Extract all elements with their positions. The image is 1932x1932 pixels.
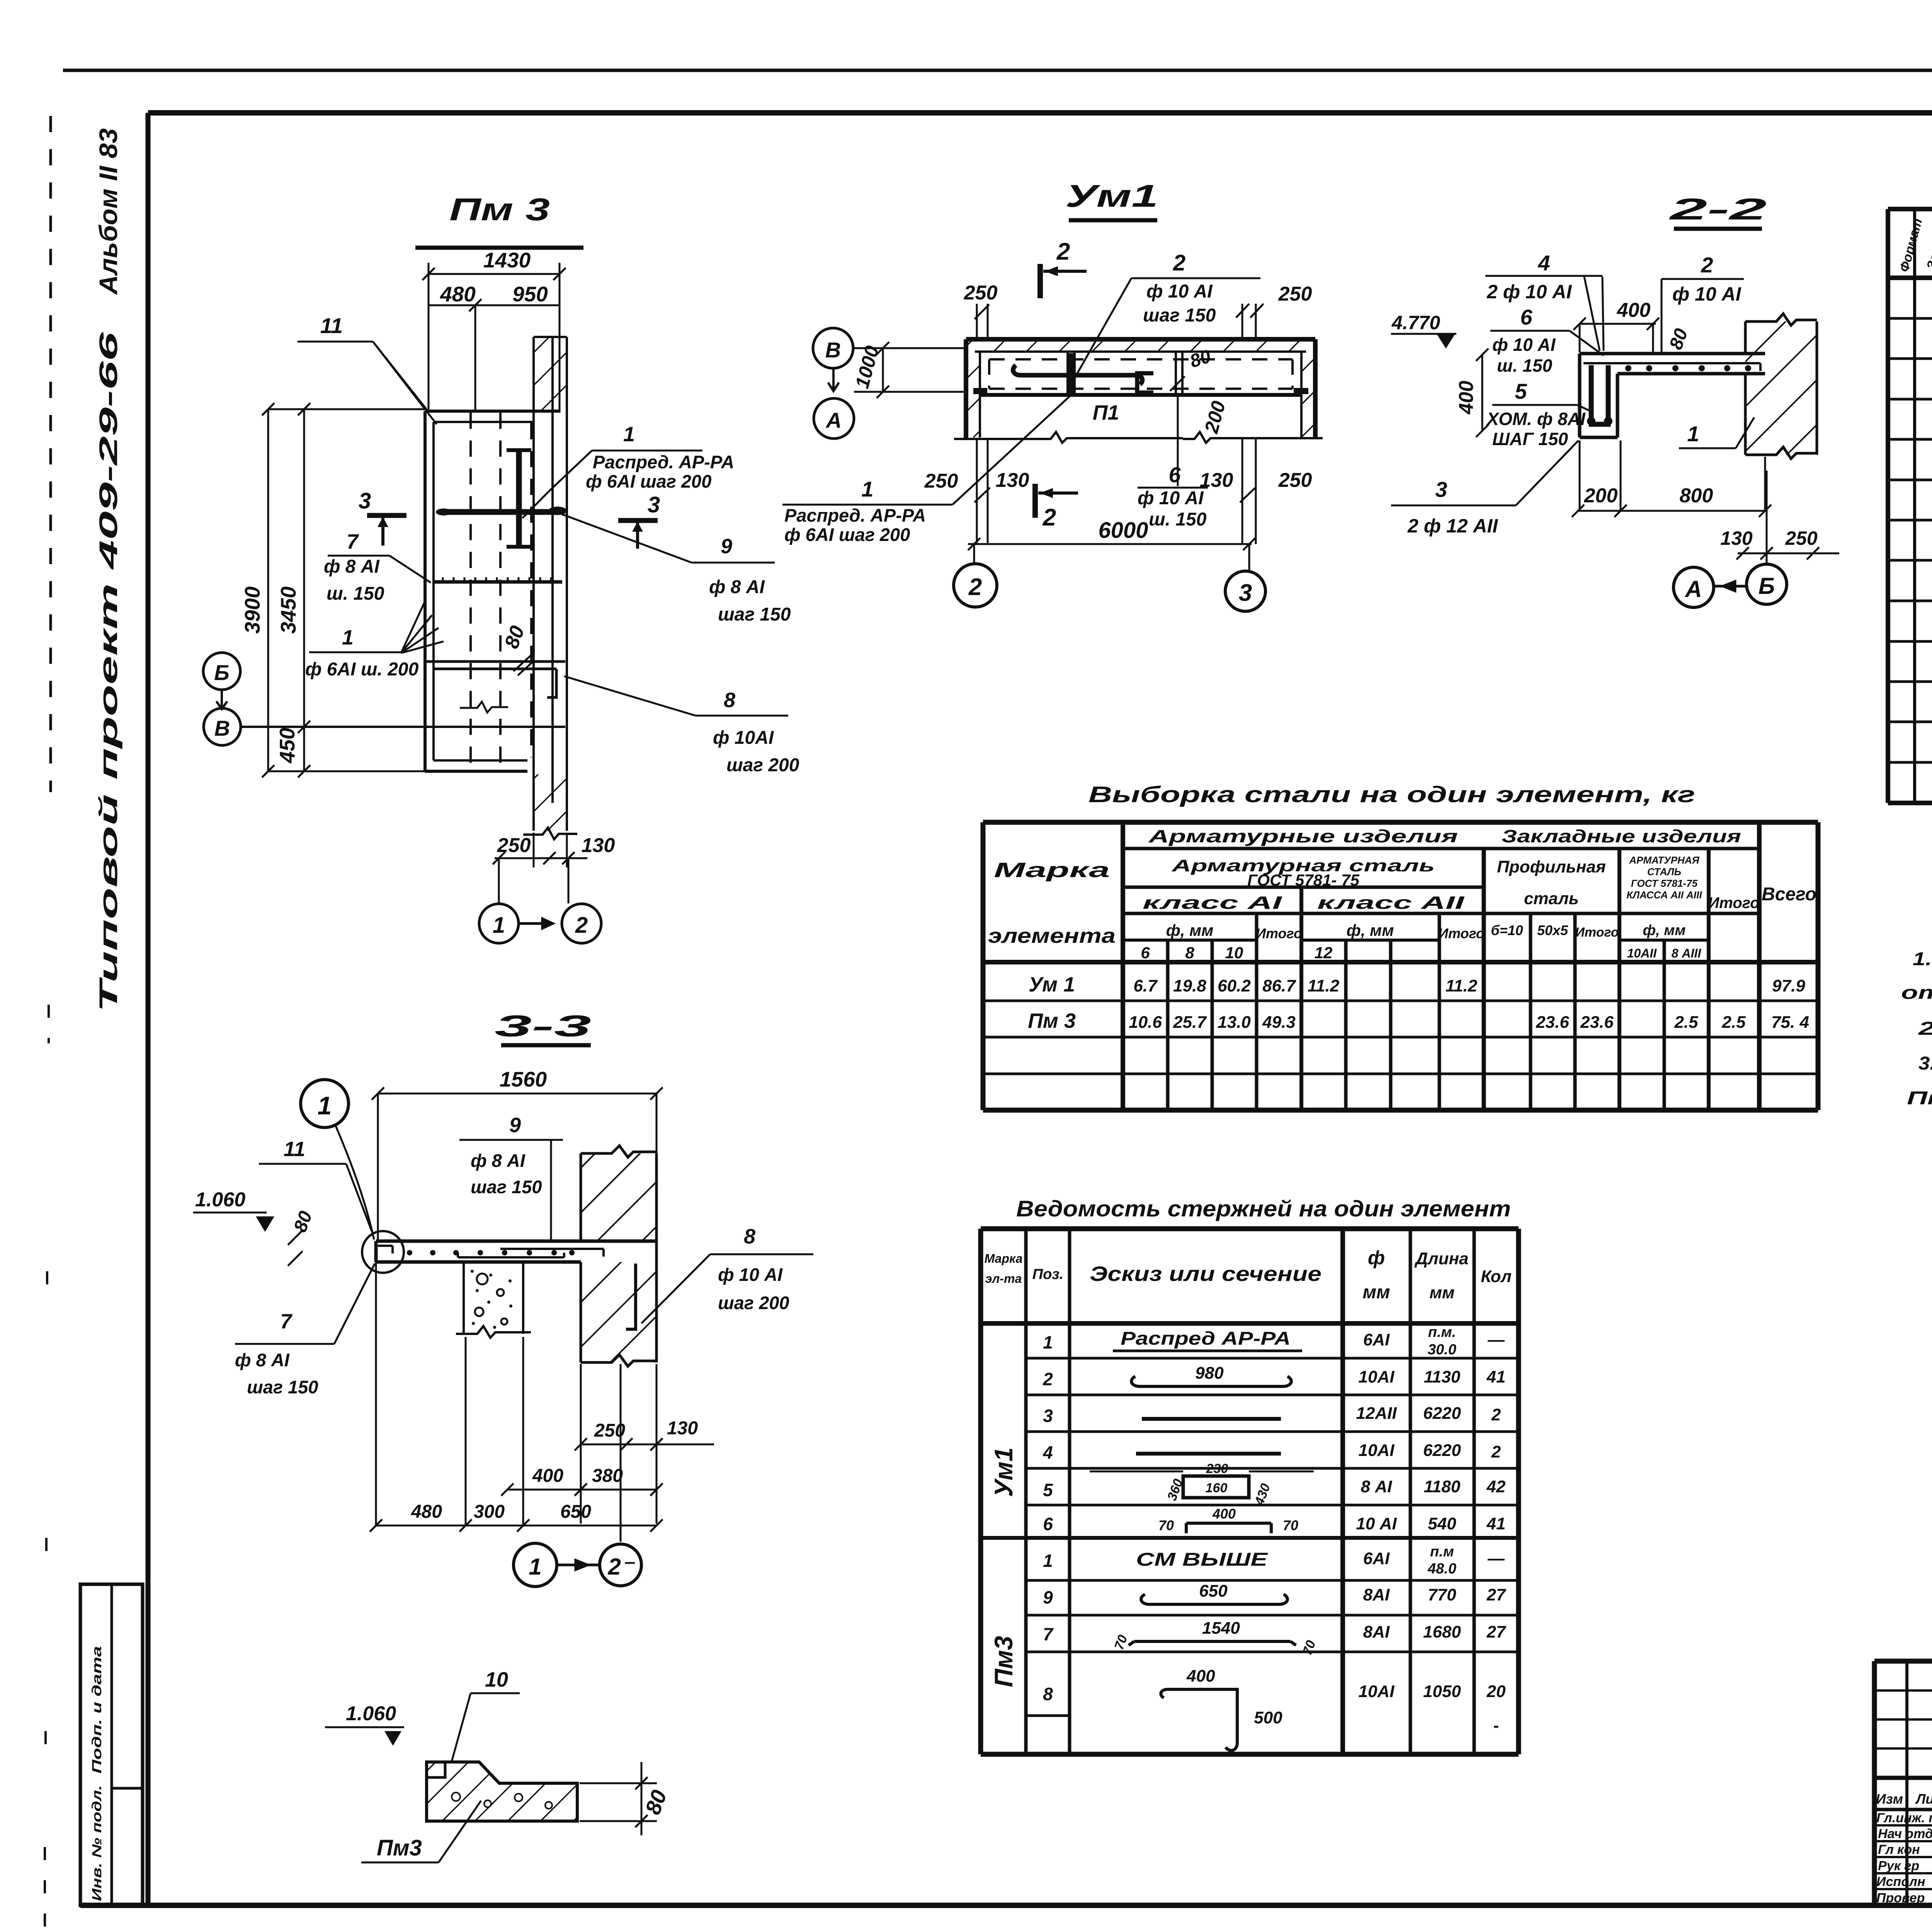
svg-text:шаг 200: шаг 200 [718, 1293, 789, 1313]
svg-text:27: 27 [1486, 1622, 1507, 1641]
plate outline Pm3 [425, 337, 560, 803]
svg-text:650: 650 [1199, 1582, 1228, 1600]
svg-text:Рук гр: Рук гр [1878, 1859, 1919, 1873]
svg-text:Формат: Формат [1897, 217, 1925, 274]
section flag 2 bottom [1035, 484, 1078, 518]
svg-text:КЛАССА АII АIII: КЛАССА АII АIII [1626, 889, 1702, 901]
svg-text:1000: 1000 [851, 344, 883, 391]
vedomost grid [981, 1229, 1519, 1754]
svg-text:2: 2 [1056, 238, 1070, 265]
svg-text:10.6: 10.6 [1129, 1013, 1162, 1032]
svg-text:1: 1 [529, 1554, 541, 1580]
svg-text:1: 1 [318, 1091, 332, 1120]
svg-text:2⁻: 2⁻ [607, 1554, 635, 1580]
svg-text:27: 27 [1486, 1585, 1507, 1604]
svg-text:ф 8 АI: ф 8 АI [709, 577, 765, 597]
grid line from B2 [1766, 471, 1768, 563]
svg-text:2-2: 2-2 [1668, 192, 1767, 226]
dim 1000 vertical [877, 342, 889, 398]
svg-text:10АI: 10АI [1359, 1441, 1395, 1460]
svg-text:8: 8 [1185, 944, 1194, 962]
svg-text:п.м: п.м [1430, 1544, 1454, 1560]
svg-text:400: 400 [1617, 299, 1651, 321]
svg-text:70: 70 [1158, 1517, 1174, 1533]
grid circle 2 [562, 904, 601, 943]
grid circle B2 [1747, 564, 1787, 604]
svg-text:ШАГ 150: ШАГ 150 [1492, 429, 1568, 449]
svg-text:7: 7 [347, 530, 359, 553]
left hatched band [968, 341, 980, 437]
svg-text:4.770: 4.770 [1391, 312, 1440, 333]
svg-text:Типовой проект 409-29-66: Типовой проект 409-29-66 [94, 331, 122, 1012]
svg-text:мм: мм [1362, 1282, 1390, 1303]
svg-text:1180: 1180 [1424, 1477, 1461, 1496]
connector B to V [216, 690, 227, 709]
vertical dim 3450 [268, 403, 425, 777]
svg-text:480: 480 [440, 282, 476, 306]
svg-text:500: 500 [1254, 1708, 1282, 1727]
svg-text:В: В [825, 338, 841, 362]
svg-text:80: 80 [1666, 326, 1692, 352]
svg-text:класс АI: класс АI [1143, 893, 1282, 913]
svg-text:мм: мм [1429, 1283, 1454, 1302]
svg-text:ф, мм: ф, мм [1166, 921, 1214, 939]
grid circle V [204, 708, 241, 745]
right inner line [1300, 352, 1303, 437]
svg-text:ф 10 АI: ф 10 АI [1492, 335, 1556, 355]
inner band line [975, 350, 1306, 353]
svg-text:п.м.: п.м. [1428, 1324, 1456, 1340]
svg-text:шаг 150: шаг 150 [718, 604, 791, 625]
svg-text:ш. 150: ш. 150 [327, 583, 384, 604]
svg-text:2. Маркировку Пм3 см. ли: 2. Маркировку Пм3 см. лист КЖ-4. [1918, 1019, 1932, 1039]
svg-text:130: 130 [667, 1418, 698, 1439]
wall hatched 3-3 upper [581, 1153, 656, 1241]
level line V right [853, 347, 966, 349]
svg-text:380: 380 [592, 1466, 623, 1486]
svg-text:Альбом II 83: Альбом II 83 [94, 128, 122, 295]
svg-text:450: 450 [275, 728, 299, 764]
svg-text:6.7: 6.7 [1133, 976, 1158, 995]
ticks for 80 [288, 1230, 303, 1266]
svg-text:8: 8 [744, 1225, 755, 1248]
grid circle V left [813, 328, 853, 368]
rebar bar with hooks in slab [1013, 353, 1142, 396]
dashed rect inside slab [989, 359, 1293, 389]
vertical dim 3900 [262, 403, 274, 777]
rebar line pos8 with hook [425, 662, 565, 697]
svg-text:8АI: 8АI [1363, 1585, 1390, 1604]
svg-text:540: 540 [1428, 1514, 1456, 1533]
svg-text:3: 3 [359, 488, 371, 514]
svg-text:Распред. АР-РА: Распред. АР-РА [593, 452, 734, 472]
svg-text:ф 6АI шаг 200: ф 6АI шаг 200 [784, 524, 910, 545]
svg-text:1560: 1560 [500, 1067, 547, 1091]
svg-text:6220: 6220 [1423, 1404, 1461, 1423]
svg-text:400: 400 [532, 1466, 563, 1486]
svg-text:элемента: элемента [988, 924, 1116, 947]
svg-text:10: 10 [1225, 944, 1243, 962]
top hatched band [968, 341, 1313, 352]
small embed right [1294, 388, 1308, 394]
svg-text:650: 650 [560, 1502, 591, 1522]
svg-text:АРМАТУРНАЯ: АРМАТУРНАЯ [1629, 854, 1699, 866]
grid circle A [1673, 567, 1714, 607]
svg-text:Итого: Итого [1256, 925, 1302, 941]
svg-text:1: 1 [1687, 422, 1699, 446]
svg-text:70: 70 [1112, 1633, 1131, 1652]
svg-text:Ведомость стержней на один: Ведомость стержней на один элемент [1016, 1196, 1511, 1221]
svg-text:9: 9 [721, 535, 732, 558]
svg-text:2.5: 2.5 [1674, 1013, 1698, 1032]
svg-text:1.060: 1.060 [195, 1189, 245, 1211]
svg-text:Эскиз или сечение: Эскиз или сечение [1090, 1262, 1321, 1286]
title underline [415, 246, 583, 250]
grid circle B [203, 653, 240, 690]
bottom dims 250 130 [493, 852, 587, 903]
grid circle A left [814, 398, 854, 439]
svg-text:Б: Б [1759, 573, 1775, 599]
svg-text:41: 41 [1486, 1514, 1506, 1533]
svg-text:—: — [1487, 1549, 1505, 1568]
svg-text:6: 6 [1168, 463, 1181, 487]
dimension 480 950 [429, 299, 560, 412]
svg-text:-: - [1493, 1716, 1499, 1735]
svg-text:130: 130 [996, 469, 1029, 492]
svg-text:4: 4 [1043, 1442, 1053, 1463]
grid circle 2 [954, 564, 997, 607]
svg-text:Б: Б [214, 660, 230, 685]
left binding dashes lower [45, 1005, 49, 1932]
connector A-B [1714, 582, 1746, 591]
svg-text:5: 5 [1043, 1480, 1053, 1500]
svg-text:ХОМ. ф 8АI: ХОМ. ф 8АI [1486, 409, 1586, 429]
svg-text:2.5: 2.5 [1721, 1013, 1746, 1032]
svg-text:3: 3 [1239, 580, 1252, 606]
svg-text:230: 230 [1206, 1461, 1228, 1476]
Um1 outer contour [966, 339, 1315, 439]
svg-text:2 ф 10 АI: 2 ф 10 АI [1486, 281, 1572, 303]
svg-text:Подп. и дата: Подп. и дата [90, 1646, 104, 1774]
svg-text:6000: 6000 [1098, 518, 1148, 543]
top rebar in slab [1583, 363, 1760, 371]
svg-text:80: 80 [290, 1208, 316, 1235]
svg-text:250: 250 [1278, 469, 1312, 492]
svg-text:9: 9 [509, 1114, 521, 1137]
svg-text:3. Временная нагрузка на пере: 3. Временная нагрузка на перекрытие на о… [1918, 1053, 1932, 1074]
small embed left [973, 388, 987, 394]
svg-text:Поз.: Поз. [1032, 1266, 1064, 1282]
svg-text:3450: 3450 [276, 586, 300, 634]
svg-text:2: 2 [1043, 504, 1056, 531]
connector V to A [828, 368, 839, 391]
svg-text:10 АI: 10 АI [1356, 1514, 1397, 1533]
svg-text:950: 950 [512, 282, 548, 306]
svg-text:Зона: Зона [1924, 237, 1932, 271]
svg-text:97.9: 97.9 [1772, 976, 1805, 995]
svg-text:1130: 1130 [1424, 1367, 1461, 1386]
svg-text:Пм 3: Пм 3 [1028, 1009, 1076, 1032]
grid circle 1 at 3-3 [514, 1543, 557, 1587]
left inner line [979, 352, 981, 437]
spec table grid [1888, 209, 1932, 803]
left binding dashed line [49, 116, 52, 792]
svg-text:800: 800 [1680, 485, 1713, 507]
svg-text:8АI: 8АI [1363, 1622, 1390, 1641]
svg-text:980: 980 [1195, 1364, 1224, 1383]
leader from circle 1 [335, 1125, 374, 1240]
svg-text:10: 10 [485, 1668, 508, 1691]
wall hatched 3-3 lower [581, 1262, 656, 1362]
rebar bars in slab 3-3 [458, 1249, 604, 1257]
title block grid [1874, 1661, 1932, 1905]
svg-text:ф 10АI: ф 10АI [713, 728, 774, 748]
svg-text:2: 2 [1173, 250, 1185, 276]
C-shaped rebar symbol [1137, 373, 1153, 393]
svg-text:11: 11 [320, 313, 343, 338]
svg-text:86.7: 86.7 [1262, 976, 1296, 995]
svg-text:ф 8 АI: ф 8 АI [235, 1350, 290, 1370]
svg-text:Провер: Провер [1876, 1891, 1925, 1905]
svg-text:А: А [1684, 576, 1702, 602]
svg-text:3: 3 [648, 492, 660, 517]
svg-text:2: 2 [575, 913, 588, 938]
svg-text:ф 10 АI: ф 10 АI [1138, 488, 1204, 509]
column below slab [456, 1262, 531, 1338]
svg-text:Длина: Длина [1414, 1249, 1468, 1268]
svg-text:Итого: Итого [1708, 895, 1759, 912]
svg-text:ф 10 АI: ф 10 АI [1146, 281, 1213, 302]
vyborka grid horizontals [983, 822, 1818, 1110]
svg-text:ф, мм: ф, мм [1643, 922, 1686, 939]
svg-text:2: 2 [1043, 1369, 1053, 1389]
margin stamp box [80, 1584, 143, 1905]
svg-text:9: 9 [1043, 1587, 1053, 1607]
title underline [1069, 218, 1157, 223]
dimension 1430 [422, 263, 566, 413]
detail circle 1 big [301, 1080, 349, 1128]
bottom boundary with breaks [954, 432, 1323, 443]
svg-text:ф 10 АI: ф 10 АI [718, 1264, 783, 1285]
svg-text:11.2: 11.2 [1308, 976, 1340, 995]
svg-text:1540: 1540 [1202, 1619, 1240, 1638]
svg-text:Ум1: Ум1 [1065, 179, 1158, 214]
wall edges 3-3 [581, 1146, 656, 1366]
svg-text:Пм 3: Пм 3 [449, 192, 550, 227]
grid circle 3 [1225, 571, 1265, 611]
svg-text:Гл.инж. пр: Гл.инж. пр [1876, 1811, 1932, 1825]
sheet top edge line [63, 66, 1932, 70]
svg-text:А: А [825, 408, 842, 432]
detail slab shape [427, 1762, 577, 1821]
svg-text:48.0: 48.0 [1427, 1561, 1456, 1577]
svg-text:8 АI: 8 АI [1361, 1477, 1392, 1496]
svg-text:Гл кон: Гл кон [1878, 1842, 1920, 1857]
beam and slab section [1580, 354, 1765, 437]
svg-text:1: 1 [861, 477, 873, 501]
svg-text:Ум1: Ум1 [989, 1447, 1018, 1497]
svg-text:СТАЛЬ: СТАЛЬ [1647, 866, 1681, 878]
svg-text:80: 80 [640, 1787, 672, 1818]
title underline [501, 1043, 591, 1048]
svg-text:—: — [1487, 1330, 1505, 1349]
svg-text:250: 250 [924, 470, 958, 492]
svg-text:250: 250 [1785, 527, 1818, 549]
arrow between circles [519, 919, 553, 928]
svg-text:23.6: 23.6 [1580, 1013, 1614, 1032]
beam corner rebar dots [1587, 417, 1595, 425]
rebar cross symbol pos 3-9 [442, 450, 556, 547]
svg-text:10АI: 10АI [1359, 1682, 1395, 1701]
svg-text:1. Маркировочную схему плит: 1. Маркировочную схему плит перекрытия н… [1913, 949, 1932, 969]
svg-text:класс АII: класс АII [1317, 893, 1465, 913]
svg-text:1.060: 1.060 [346, 1702, 396, 1725]
svg-text:7: 7 [1043, 1624, 1054, 1644]
svg-text:сталь: сталь [1524, 889, 1579, 908]
svg-text:6АI: 6АI [1363, 1330, 1390, 1349]
svg-text:13.0: 13.0 [1218, 1013, 1251, 1032]
dim 80 detail [580, 1762, 657, 1835]
svg-text:ф: ф [1368, 1247, 1385, 1269]
svg-text:11: 11 [284, 1138, 305, 1161]
svg-text:1: 1 [1043, 1332, 1053, 1352]
connector 1 to 2minus [558, 1560, 599, 1570]
svg-text:Всего: Всего [1762, 884, 1816, 905]
svg-text:2: 2 [968, 574, 982, 600]
svg-text:Распред АР-РА: Распред АР-РА [1121, 1328, 1291, 1349]
svg-text:Пм3: Пм3 [989, 1636, 1018, 1687]
svg-text:ф 6АI шаг 200: ф 6АI шаг 200 [586, 471, 711, 492]
svg-text:10АII: 10АII [1627, 946, 1657, 960]
stipple on detail [452, 1793, 552, 1809]
svg-text:ф 10 АI: ф 10 АI [1672, 283, 1742, 305]
svg-text:ГОСТ 5781-75: ГОСТ 5781-75 [1631, 878, 1698, 889]
svg-text:Профильная: Профильная [1497, 857, 1606, 876]
svg-text:19.8: 19.8 [1173, 976, 1206, 995]
svg-text:41: 41 [1486, 1367, 1506, 1386]
svg-text:Арматурные изделия: Арматурные изделия [1148, 826, 1458, 846]
level line B [240, 726, 565, 728]
wall hatched right [1745, 321, 1817, 455]
rebar line pos7 with ticks [434, 577, 562, 583]
svg-text:6: 6 [1043, 1514, 1053, 1534]
svg-text:400: 400 [1186, 1667, 1215, 1685]
svg-text:шаг 150: шаг 150 [471, 1177, 542, 1197]
svg-text:ш. 150: ш. 150 [1497, 355, 1553, 376]
svg-text:Кол: Кол [1481, 1267, 1512, 1286]
svg-text:23.6: 23.6 [1536, 1013, 1569, 1032]
wall hatch above plate [534, 337, 567, 411]
svg-text:2 ф 12 АII: 2 ф 12 АII [1407, 515, 1498, 537]
svg-text:ф 8 АI: ф 8 АI [324, 556, 380, 577]
svg-text:60.2: 60.2 [1218, 976, 1251, 995]
svg-text:СМ ВЫШЕ: СМ ВЫШЕ [1136, 1549, 1269, 1570]
svg-text:В: В [214, 716, 230, 740]
detail balloon at slab end [362, 1231, 404, 1273]
svg-text:2: 2 [1491, 1442, 1501, 1461]
right hatched band [1301, 341, 1313, 437]
svg-text:25.7: 25.7 [1173, 1013, 1207, 1032]
title underline [1674, 227, 1762, 231]
svg-text:2: 2 [1491, 1405, 1501, 1424]
svg-text:1: 1 [1043, 1551, 1053, 1571]
slab rebar dots 3-3 [407, 1250, 575, 1255]
svg-text:20: 20 [1486, 1682, 1506, 1701]
svg-text:Нач отд: Нач отд [1878, 1827, 1932, 1841]
svg-text:8 АIII: 8 АIII [1672, 946, 1702, 960]
svg-text:П1: П1 [1093, 401, 1119, 424]
svg-text:Закладные изделия: Закладные изделия [1502, 826, 1741, 846]
svg-text:80: 80 [500, 623, 529, 651]
vertical dim 400 left [1476, 349, 1488, 437]
vyborka grid verticals [983, 822, 1818, 1110]
svg-text:10АI: 10АI [1359, 1367, 1395, 1386]
svg-text:отм. 4.800 см лист КЖ-14.: отм. 4.800 см лист КЖ-14. [1901, 983, 1932, 1003]
svg-text:3: 3 [1435, 477, 1447, 502]
wall edges lower [523, 774, 577, 839]
svg-text:Ум 1: Ум 1 [1029, 973, 1075, 996]
svg-text:Марка: Марка [985, 1252, 1023, 1265]
slab P1 bottom edge [980, 393, 1301, 397]
svg-text:770: 770 [1428, 1585, 1456, 1604]
svg-text:б=10: б=10 [1491, 922, 1523, 938]
svg-text:200: 200 [1200, 399, 1230, 436]
svg-text:шаг 200: шаг 200 [726, 755, 799, 776]
svg-text:3900: 3900 [240, 586, 264, 634]
svg-text:130: 130 [582, 834, 615, 857]
concrete stipple in column [475, 1274, 507, 1325]
svg-text:Изм: Изм [1876, 1791, 1903, 1807]
svg-text:4: 4 [1537, 251, 1550, 275]
svg-text:6220: 6220 [1423, 1441, 1461, 1460]
svg-text:ф 6АI ш. 200: ф 6АI ш. 200 [305, 659, 419, 680]
svg-text:1430: 1430 [483, 248, 531, 272]
svg-text:ф 8 АI: ф 8 АI [471, 1150, 526, 1171]
svg-text:шаг 150: шаг 150 [1143, 305, 1216, 326]
svg-text:ГОСТ 5781- 75: ГОСТ 5781- 75 [1247, 871, 1359, 889]
grid circle 1 [479, 904, 519, 943]
svg-text:3: 3 [1043, 1406, 1053, 1426]
svg-text:70: 70 [1300, 1638, 1319, 1657]
wall hatch below plate [534, 774, 567, 831]
svg-text:Исполн: Исполн [1876, 1874, 1925, 1889]
svg-text:3-3: 3-3 [495, 1009, 591, 1043]
svg-text:Лист: Лист [1915, 1791, 1932, 1807]
plate joint divider left [1068, 352, 1075, 395]
svg-text:Инв. № подл.: Инв. № подл. [90, 1785, 104, 1901]
svg-text:1: 1 [493, 913, 505, 938]
svg-text:ф, мм: ф, мм [1347, 921, 1394, 939]
svg-text:400: 400 [1212, 1506, 1236, 1522]
dashed axis lines in plate [471, 413, 531, 767]
J-hook in wall [626, 1264, 636, 1329]
svg-text:250: 250 [1278, 283, 1312, 305]
grid line 3 extensions [1240, 439, 1256, 544]
svg-text:8: 8 [1043, 1684, 1053, 1704]
svg-text:480: 480 [411, 1502, 442, 1522]
svg-text:6: 6 [1520, 305, 1532, 329]
stirrup in beam [1591, 365, 1608, 424]
slab section 3-3 [376, 1241, 656, 1262]
svg-text:70: 70 [1283, 1517, 1298, 1533]
svg-text:12АII: 12АII [1356, 1404, 1397, 1423]
svg-text:1050: 1050 [1423, 1682, 1461, 1701]
svg-text:Итого: Итого [1575, 925, 1619, 940]
svg-text:эл-та: эл-та [985, 1272, 1022, 1286]
svg-text:7: 7 [280, 1310, 293, 1333]
wall edges upper [534, 337, 567, 831]
svg-text:12: 12 [1315, 944, 1333, 962]
